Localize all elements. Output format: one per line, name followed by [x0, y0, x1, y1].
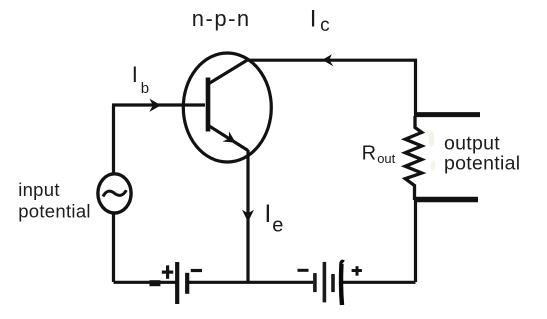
svg-text:output: output — [444, 132, 500, 154]
svg-text:out: out — [377, 151, 395, 166]
svg-text:potential: potential — [444, 153, 520, 175]
svg-text:I: I — [264, 200, 271, 228]
svg-text:e: e — [272, 214, 283, 236]
svg-text:input: input — [18, 179, 60, 200]
svg-text:n-p-n: n-p-n — [192, 6, 251, 31]
svg-text:potential: potential — [18, 201, 91, 222]
svg-text:c: c — [320, 15, 330, 36]
svg-text:I: I — [132, 62, 138, 87]
svg-text:b: b — [141, 80, 149, 97]
svg-text:R: R — [362, 143, 376, 165]
svg-text:I: I — [310, 5, 317, 32]
